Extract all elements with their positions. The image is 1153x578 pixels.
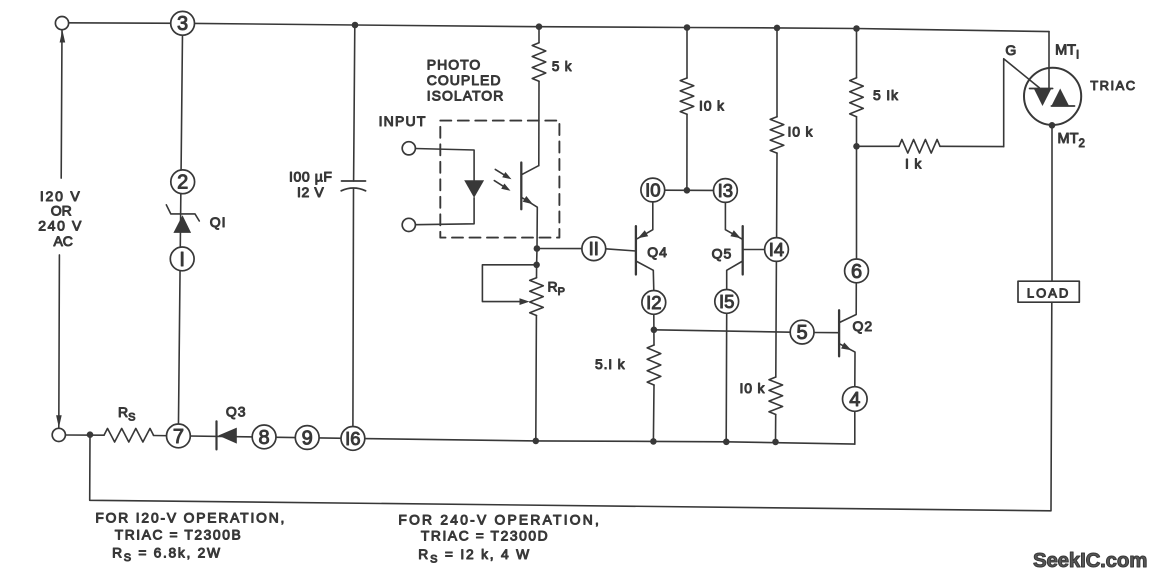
svg-text:TRIAC = T2300D: TRIAC = T2300D <box>421 529 549 544</box>
svg-text:Q4: Q4 <box>647 244 668 260</box>
svg-text:I6: I6 <box>345 428 360 449</box>
svg-text:3: 3 <box>177 13 188 35</box>
svg-text:I2: I2 <box>646 292 661 313</box>
svg-text:9: 9 <box>302 427 313 449</box>
svg-text:COUPLED: COUPLED <box>427 72 502 88</box>
svg-text:6: 6 <box>851 261 862 283</box>
svg-text:FOR I20-V OPERATION,: FOR I20-V OPERATION, <box>95 511 286 526</box>
svg-text:I: I <box>179 249 185 271</box>
svg-text:I00 µF: I00 µF <box>289 169 333 185</box>
svg-text:I0 k: I0 k <box>699 98 725 114</box>
svg-text:SeekIC.com: SeekIC.com <box>1033 549 1147 572</box>
svg-text:Q5: Q5 <box>712 246 733 262</box>
svg-text:2: 2 <box>177 172 188 194</box>
svg-text:5 k: 5 k <box>552 59 572 74</box>
svg-text:8: 8 <box>259 427 270 449</box>
svg-text:PHOTO: PHOTO <box>427 57 482 73</box>
svg-text:G: G <box>1005 42 1016 58</box>
svg-text:I5: I5 <box>719 291 734 312</box>
svg-text:240 V: 240 V <box>38 217 83 233</box>
svg-text:TRIAC: TRIAC <box>1090 78 1137 93</box>
svg-text:Q2: Q2 <box>853 318 874 334</box>
svg-text:5 Ik: 5 Ik <box>873 87 899 103</box>
svg-text:AC: AC <box>53 233 72 249</box>
svg-text:I2 V: I2 V <box>297 184 324 200</box>
svg-text:ISOLATOR: ISOLATOR <box>427 87 505 103</box>
svg-text:I4: I4 <box>769 239 784 260</box>
svg-text:I k: I k <box>905 156 922 172</box>
svg-text:LOAD: LOAD <box>1027 286 1070 301</box>
svg-text:I3: I3 <box>718 180 733 201</box>
svg-text:FOR 240-V OPERATION,: FOR 240-V OPERATION, <box>398 513 601 528</box>
svg-text:TRIAC = T2300B: TRIAC = T2300B <box>115 528 243 543</box>
svg-text:I0 k: I0 k <box>740 380 766 396</box>
svg-text:4: 4 <box>849 389 860 411</box>
svg-text:INPUT: INPUT <box>379 113 427 129</box>
svg-text:5.I k: 5.I k <box>595 356 626 372</box>
svg-text:I0: I0 <box>645 179 660 200</box>
svg-text:II: II <box>589 238 599 259</box>
svg-text:OR: OR <box>51 203 72 219</box>
svg-text:5: 5 <box>797 322 808 344</box>
svg-text:7: 7 <box>173 426 184 448</box>
svg-text:Q3: Q3 <box>226 404 247 420</box>
svg-text:QI: QI <box>210 214 227 230</box>
svg-text:I0 k: I0 k <box>788 124 814 140</box>
